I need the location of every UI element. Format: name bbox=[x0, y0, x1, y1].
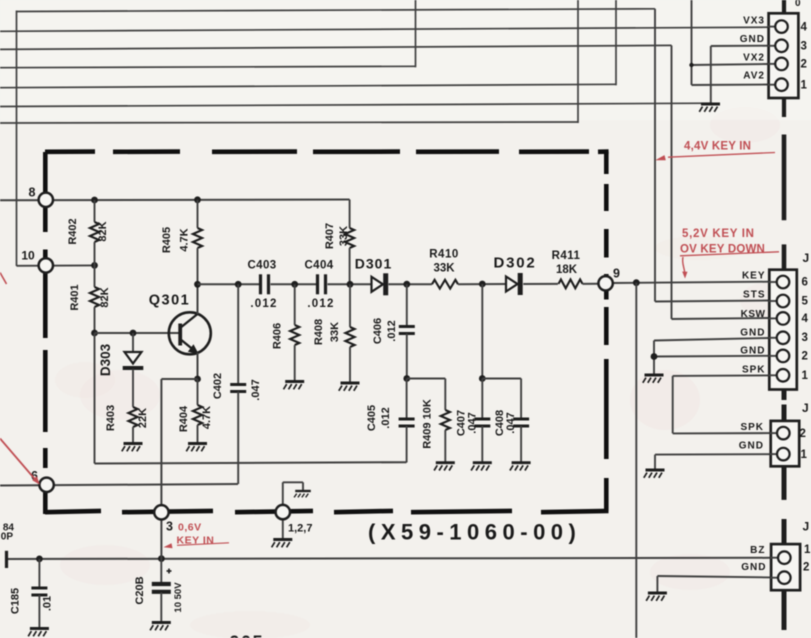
svg-text:10 50V: 10 50V bbox=[173, 582, 184, 613]
svg-text:10: 10 bbox=[21, 249, 35, 263]
svg-text:R402: R402 bbox=[67, 218, 79, 244]
svg-text:D302: D302 bbox=[493, 255, 536, 272]
svg-text:3: 3 bbox=[802, 332, 808, 344]
svg-text:82K: 82K bbox=[97, 221, 109, 241]
svg-text:KEY: KEY bbox=[742, 270, 766, 281]
svg-text:R404: R404 bbox=[178, 405, 190, 432]
svg-text:2: 2 bbox=[802, 351, 808, 363]
svg-text:R405: R405 bbox=[161, 227, 173, 253]
svg-text:C402: C402 bbox=[212, 373, 224, 399]
svg-text:18K: 18K bbox=[556, 264, 578, 276]
svg-text:R401: R401 bbox=[69, 284, 81, 310]
svg-text:.012: .012 bbox=[380, 407, 392, 428]
svg-text:4.7K: 4.7K bbox=[179, 228, 191, 251]
svg-text:33K: 33K bbox=[433, 263, 455, 275]
svg-text:R411: R411 bbox=[552, 250, 581, 262]
svg-text:C404: C404 bbox=[304, 260, 333, 272]
svg-text:R408: R408 bbox=[313, 319, 325, 345]
svg-text:C20B: C20B bbox=[134, 576, 146, 604]
svg-text:KSW: KSW bbox=[741, 309, 766, 320]
svg-text:R406: R406 bbox=[272, 323, 284, 349]
svg-text:SPK: SPK bbox=[742, 365, 766, 376]
svg-text:GND: GND bbox=[740, 328, 765, 339]
svg-text:5,2V KEY IN: 5,2V KEY IN bbox=[682, 228, 755, 240]
svg-text:GND: GND bbox=[740, 34, 765, 45]
svg-text:2: 2 bbox=[803, 562, 809, 574]
svg-text:2: 2 bbox=[800, 428, 806, 440]
svg-text:D301: D301 bbox=[355, 256, 392, 272]
svg-text:1: 1 bbox=[802, 370, 809, 382]
svg-text:82K: 82K bbox=[99, 287, 111, 307]
svg-text:3: 3 bbox=[801, 41, 807, 53]
svg-text:R407: R407 bbox=[324, 223, 336, 249]
svg-text:.012: .012 bbox=[386, 320, 398, 341]
svg-text:8: 8 bbox=[29, 186, 36, 200]
svg-text:0: 0 bbox=[795, 0, 801, 9]
svg-text:STS: STS bbox=[743, 290, 765, 301]
svg-text:R410: R410 bbox=[429, 249, 459, 261]
svg-text:C405: C405 bbox=[366, 405, 378, 431]
svg-text:6: 6 bbox=[802, 277, 808, 289]
svg-text:Q301: Q301 bbox=[149, 293, 190, 309]
svg-text:5: 5 bbox=[802, 296, 809, 308]
svg-text:GND: GND bbox=[740, 346, 765, 357]
svg-text:0,6V: 0,6V bbox=[178, 522, 202, 534]
svg-text:33K: 33K bbox=[338, 226, 350, 246]
svg-text:R403: R403 bbox=[105, 405, 117, 431]
svg-text:1: 1 bbox=[801, 79, 808, 91]
svg-text:2: 2 bbox=[801, 59, 807, 71]
svg-text:1: 1 bbox=[804, 544, 811, 556]
svg-text:4,4V KEY IN: 4,4V KEY IN bbox=[684, 141, 751, 153]
svg-text:.047: .047 bbox=[467, 412, 479, 433]
svg-text:VX3: VX3 bbox=[743, 15, 765, 26]
svg-text:(X59-1060-00): (X59-1060-00) bbox=[368, 520, 581, 545]
svg-text:GND: GND bbox=[741, 562, 766, 573]
svg-text:C403: C403 bbox=[247, 260, 276, 272]
svg-text:BZ: BZ bbox=[750, 545, 765, 556]
svg-text:D303: D303 bbox=[98, 343, 113, 376]
svg-text:1,2,7: 1,2,7 bbox=[288, 523, 312, 535]
svg-text:.047: .047 bbox=[250, 379, 262, 400]
svg-text:0P: 0P bbox=[1, 532, 14, 543]
svg-text:C185: C185 bbox=[10, 588, 22, 614]
svg-text:33K: 33K bbox=[329, 322, 341, 342]
svg-text:1: 1 bbox=[801, 449, 808, 461]
svg-text:VX2: VX2 bbox=[743, 52, 765, 63]
svg-text:.012: .012 bbox=[250, 298, 277, 310]
svg-text:9: 9 bbox=[613, 267, 620, 281]
svg-text:GND: GND bbox=[739, 441, 764, 452]
svg-text:3: 3 bbox=[166, 520, 173, 534]
svg-text:4: 4 bbox=[801, 21, 808, 33]
svg-text:C406: C406 bbox=[372, 318, 384, 344]
svg-text:4: 4 bbox=[802, 313, 809, 325]
svg-text:J: J bbox=[803, 251, 810, 265]
svg-text:4.7K: 4.7K bbox=[201, 406, 213, 429]
svg-text:.01: .01 bbox=[42, 596, 54, 611]
svg-text:22K: 22K bbox=[137, 408, 149, 428]
svg-text:905: 905 bbox=[230, 633, 265, 638]
svg-text:.012: .012 bbox=[307, 298, 334, 310]
svg-text:R409 10K: R409 10K bbox=[422, 399, 434, 449]
svg-text:J: J bbox=[802, 401, 809, 415]
svg-text:.047: .047 bbox=[505, 412, 517, 433]
svg-text:AV2: AV2 bbox=[743, 70, 765, 81]
svg-text:SPK: SPK bbox=[740, 422, 764, 433]
svg-text:J: J bbox=[803, 520, 810, 534]
